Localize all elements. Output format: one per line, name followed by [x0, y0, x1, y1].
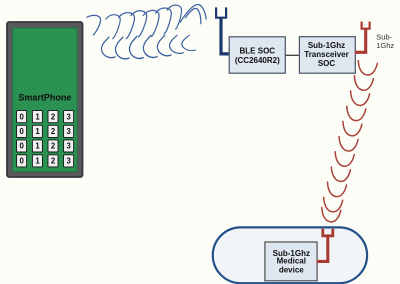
- svg-text:0: 0: [20, 157, 25, 166]
- key 0 row1: [17, 111, 27, 123]
- svg-text:3: 3: [67, 142, 72, 151]
- svg-text:1Ghz: 1Ghz: [376, 41, 394, 50]
- BLE antenna: [216, 7, 229, 54]
- Sub-1GHz RF wave 9: [328, 182, 347, 196]
- Sub-1GHz RF wave 10: [324, 197, 343, 211]
- key 2 row2: [48, 125, 58, 137]
- Sub-1GHz antenna: [355, 22, 370, 53]
- key 2 row4: [48, 155, 58, 167]
- svg-text:2: 2: [51, 112, 56, 121]
- BLE RF wave 5 bottom: [143, 36, 157, 58]
- BLE RF wave 3 bottom: [115, 37, 129, 59]
- key 0 row3: [17, 140, 27, 152]
- svg-text:1: 1: [35, 142, 40, 151]
- Sub-1GHz transceiver SOC box: [299, 37, 355, 73]
- BLE RF wave 4 head: [131, 11, 147, 37]
- svg-text:0: 0: [20, 127, 25, 136]
- wire BLE SOC to transceiver: [285, 54, 298, 56]
- svg-text:2: 2: [51, 142, 56, 151]
- Sub-1GHz RF wave 2: [354, 76, 373, 90]
- svg-text:device: device: [279, 266, 304, 275]
- key 3 row2: [64, 125, 74, 137]
- key 3 row1: [64, 111, 74, 123]
- BLE RF wave 7 bottom: [170, 35, 184, 53]
- svg-text:0: 0: [20, 142, 25, 151]
- keypad: [17, 111, 74, 167]
- BLE RF wave 4 bottom: [129, 36, 143, 58]
- BLE RF wave 3 head: [119, 13, 135, 39]
- key 3 row4: [64, 155, 74, 167]
- BLE RF wave 8 bottom: [182, 35, 196, 50]
- key 2 row1: [48, 111, 58, 123]
- svg-text:3: 3: [67, 112, 72, 121]
- key 1 row2: [32, 125, 42, 137]
- Sub-1GHz RF wave 11: [322, 208, 341, 222]
- key 0 row4: [17, 155, 27, 167]
- svg-text:1: 1: [35, 127, 40, 136]
- svg-text:SOC: SOC: [318, 59, 336, 68]
- BLE RF wave 8 head: [185, 8, 201, 23]
- Sub-1GHz RF waves group: [322, 61, 378, 222]
- svg-text:Sub-1Ghz: Sub-1Ghz: [308, 41, 345, 50]
- BLE RF wave 6 bottom: [157, 35, 171, 55]
- smartphone body: [7, 22, 83, 177]
- Sub-1GHz RF wave 5: [343, 121, 362, 135]
- BLE RF waves group: [87, 4, 206, 58]
- svg-text:1: 1: [35, 157, 40, 166]
- key 1 row4: [32, 155, 42, 167]
- Sub-1GHz RF wave 7: [335, 152, 354, 166]
- Sub-1GHz RF wave 1: [358, 61, 377, 75]
- svg-text:2: 2: [51, 157, 56, 166]
- svg-text:3: 3: [67, 157, 72, 166]
- medical device antenna: [317, 229, 333, 262]
- BLE RF wave 9 head: [180, 4, 206, 22]
- BLE RF wave 6 head: [155, 8, 172, 35]
- svg-text:2: 2: [51, 127, 56, 136]
- key 0 row2: [17, 125, 27, 137]
- BLE SOC box: [229, 37, 285, 73]
- key 3 row3: [64, 140, 74, 152]
- BLE RF wave 2 head: [106, 15, 120, 39]
- svg-text:Transceiver: Transceiver: [304, 50, 348, 59]
- medical device capsule: [213, 227, 367, 283]
- svg-text:BLE SOC: BLE SOC: [240, 47, 276, 56]
- key 2 row3: [48, 140, 58, 152]
- svg-text:3: 3: [67, 127, 72, 136]
- BLE RF wave 2 bottom: [101, 37, 115, 57]
- Sub-1GHz medical device box: [265, 242, 317, 281]
- smartphone screen: [13, 28, 77, 172]
- Sub-1GHz RF wave 8: [331, 167, 350, 181]
- Sub-1GHz RF wave 4: [347, 106, 366, 120]
- BLE RF wave 1 head: [87, 15, 101, 35]
- Sub-1GHz RF wave 6: [339, 137, 358, 151]
- svg-text:SmartPhone: SmartPhone: [18, 93, 71, 103]
- svg-text:(CC2640R2): (CC2640R2): [235, 56, 280, 65]
- svg-text:1: 1: [35, 112, 40, 121]
- BLE RF wave 7 head: [167, 5, 183, 30]
- key 1 row3: [32, 140, 42, 152]
- key 1 row1: [32, 111, 42, 123]
- BLE RF wave 5 head: [143, 10, 160, 37]
- svg-text:Medical: Medical: [277, 257, 306, 266]
- svg-text:0: 0: [20, 112, 25, 121]
- Sub-1GHz RF wave 3: [351, 91, 370, 105]
- label Sub-1Ghz (antenna): [376, 32, 394, 49]
